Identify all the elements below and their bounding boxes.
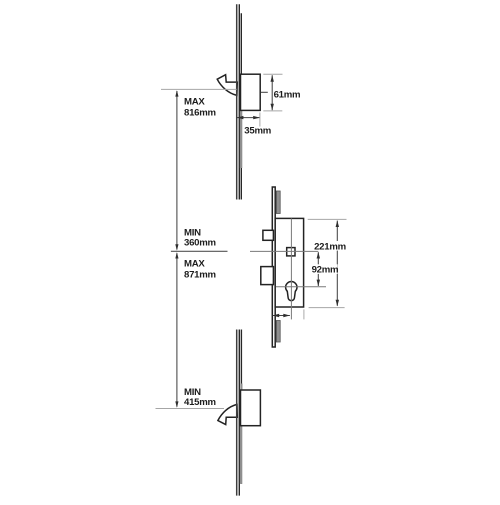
svg-text:92mm: 92mm (312, 265, 339, 276)
svg-text:360mm: 360mm (184, 238, 216, 249)
svg-text:35mm: 35mm (244, 126, 271, 137)
svg-text:816mm: 816mm (184, 108, 216, 119)
svg-text:MAX: MAX (184, 259, 205, 270)
svg-text:MAX: MAX (184, 97, 205, 108)
svg-text:221mm: 221mm (314, 241, 346, 252)
svg-text:415mm: 415mm (184, 397, 216, 408)
svg-text:871mm: 871mm (184, 270, 216, 281)
svg-text:61mm: 61mm (274, 89, 301, 100)
